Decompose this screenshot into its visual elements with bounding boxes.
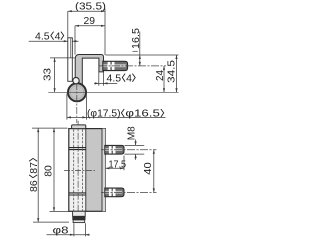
- ext line y=222.1 (86 bottom): [33, 221, 69, 223]
- dim 4.5<4> top angle brackets: [51, 32, 64, 40]
- stud center stripe: [103, 64, 126, 67]
- dim 33 arrows: [54, 58, 56, 92]
- leaf plate (vertical, edge-on): [68, 38, 73, 82]
- svg-text:16.5: 16.5: [130, 28, 142, 49]
- dim (35.5) arrows: [68, 10, 105, 12]
- dim 29 arrows: [75, 25, 105, 27]
- phi8 arrows: [70, 234, 90, 236]
- stud upper (front view): [105, 145, 124, 154]
- dim 80 line: [53, 128, 55, 211]
- svg-text:φ16.5: φ16.5: [125, 108, 160, 120]
- dim 4.5<4> bottom line: [94, 82, 117, 84]
- hinge pin (top view small circle): [73, 77, 79, 83]
- knuckle center line horizontal: [48, 91, 178, 93]
- hinge arm (hook profile): [75, 55, 103, 85]
- dim 86<87> line: [37, 128, 39, 222]
- svg-text:φ8: φ8: [53, 225, 69, 237]
- body barrel fill: [69, 129, 86, 212]
- leaf edge strip fill: [102, 129, 105, 212]
- stud lower: [105, 188, 124, 197]
- dim (35.5) line: [68, 10, 105, 12]
- pin segment 1: [73, 211, 86, 216]
- dim 34.5 arrows: [175, 55, 177, 92]
- dim 16.5 arrows: [139, 55, 141, 66]
- body center line horizontal: [64, 170, 95, 172]
- barrel/leaf boundary: [85, 129, 87, 212]
- barrel knuckle joint lower: [69, 193, 86, 195]
- body leaf fill: [86, 129, 106, 212]
- ext line x=75: [74, 26, 76, 55]
- ext line y=55 right: [106, 54, 179, 56]
- svg-text:M8: M8: [125, 126, 137, 140]
- svg-text:24: 24: [154, 70, 166, 81]
- stud (top view) body: [103, 61, 128, 70]
- dim 4.5<4> top arrows: [64, 40, 77, 42]
- dim phi arrows: [67, 116, 87, 118]
- ext line right x=105: [104, 9, 106, 56]
- dim 16.5 underline: [133, 50, 138, 52]
- body outline: [69, 129, 106, 212]
- svg-text:40: 40: [142, 162, 154, 175]
- svg-text:87: 87: [28, 162, 40, 174]
- M8 arrows: [135, 141, 137, 158]
- dim phi angle brackets: [121, 109, 163, 117]
- dim 4.5<4> bottom angle brackets: [122, 74, 135, 82]
- top cap: [72, 125, 86, 129]
- dim 80 bottom ext: [50, 210, 69, 212]
- dim 17.5 line: [105, 167, 124, 169]
- knuckle inner ring: [70, 86, 83, 99]
- dim 17.5 arrows: [105, 167, 124, 169]
- body center line vertical: [77, 121, 79, 212]
- dim 4.5<4> top line: [29, 40, 79, 42]
- dim 16.5 line: [139, 32, 141, 66]
- barrel knuckle joint upper: [69, 148, 86, 150]
- dim 24 arrows: [163, 66, 165, 92]
- dim 24 line: [163, 66, 165, 92]
- dim 80 arrows: [53, 128, 55, 211]
- leaf inner edge: [101, 129, 103, 212]
- stud center line: [99, 65, 166, 67]
- dim 40 line: [153, 150, 155, 193]
- hidden pin hole lines: [74, 130, 83, 211]
- dim phi line: [67, 116, 166, 118]
- knuckle center line vertical: [76, 83, 78, 123]
- dim 86<87> text: [28, 158, 40, 192]
- svg-text:86: 86: [28, 180, 40, 192]
- svg-text:4.5: 4.5: [35, 30, 50, 42]
- svg-text:29: 29: [84, 15, 96, 27]
- pin dark band: [72, 216, 85, 220]
- svg-text:(φ17.5): (φ17.5): [87, 108, 121, 120]
- phi8 ext lines: [74, 223, 86, 236]
- svg-text:34.5: 34.5: [166, 60, 178, 83]
- svg-text:4.5: 4.5: [107, 72, 122, 84]
- svg-text:33: 33: [42, 68, 54, 81]
- svg-text:4: 4: [55, 30, 61, 42]
- svg-text:4: 4: [126, 72, 132, 84]
- dim 34.5 line: [176, 55, 178, 92]
- dim 4.5<4> bottom arrows: [95, 82, 108, 84]
- dim phi ext lines: [67, 94, 87, 120]
- ext line x=67.8 upper: [67, 11, 69, 38]
- dim 33 line: [54, 58, 56, 92]
- knuckle circle: [68, 83, 86, 101]
- knuckle crosshair horizontal: [68, 91, 86, 93]
- svg-text:80: 80: [42, 165, 54, 177]
- dim 86<87> arrows: [37, 128, 39, 222]
- M8 dim line: [135, 140, 137, 160]
- dim 4.5<4> bottom ext lines: [99, 72, 104, 86]
- dim 33 ext line y=57.9: [50, 57, 75, 59]
- dim 17.5 ext: [123, 156, 125, 171]
- stud center lines: [101, 150, 157, 193]
- phi8 dim line: [47, 234, 90, 236]
- dim 40 arrows: [153, 150, 155, 193]
- dim 29 line: [75, 25, 105, 27]
- pin segment 2: [73, 220, 85, 223]
- stud groove slots: [108, 62, 111, 70]
- inner plate line x=70.7: [70, 38, 72, 58]
- ext line top y=128.1: [32, 127, 68, 129]
- M8 ext lines: [125, 145, 145, 154]
